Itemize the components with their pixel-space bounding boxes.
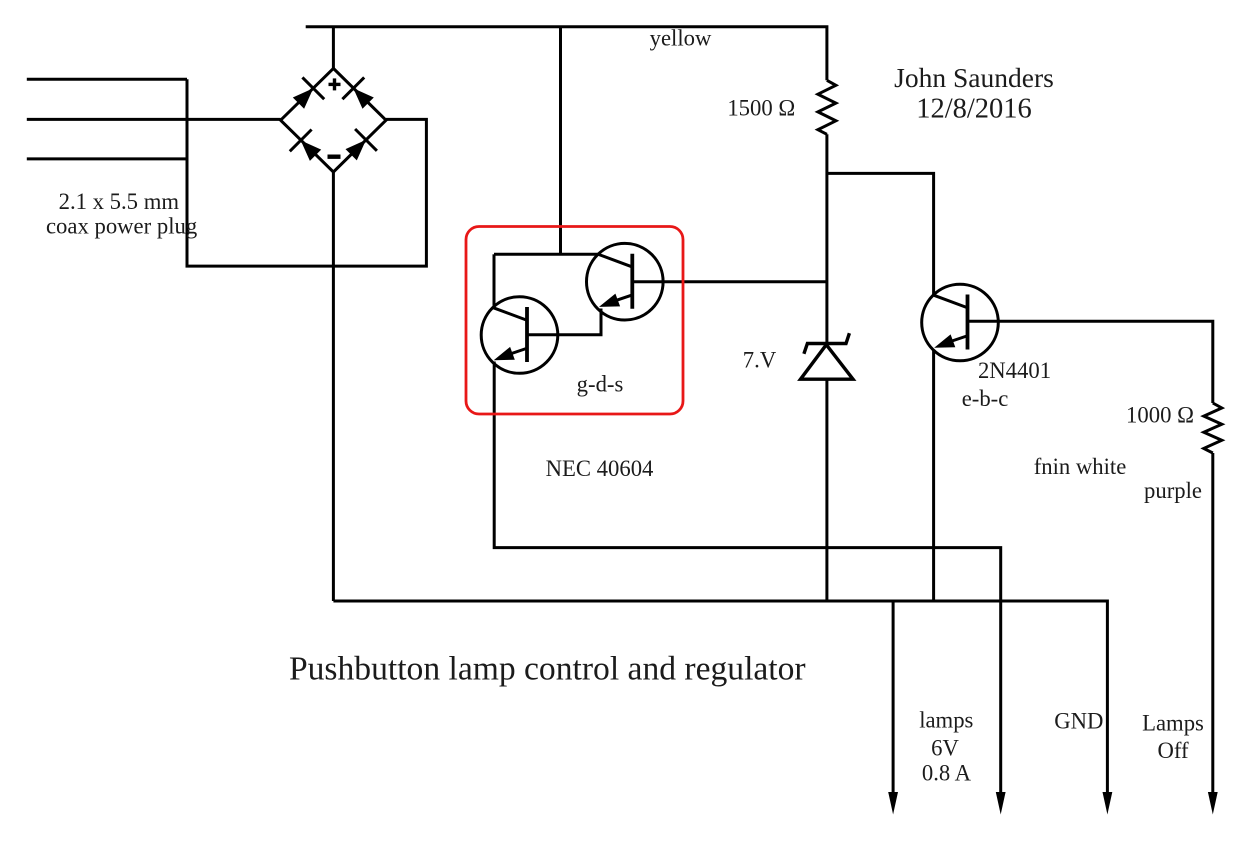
svg-text:e-b-c: e-b-c	[962, 386, 1009, 411]
svg-text:2.1 x 5.5 mm: 2.1 x 5.5 mm	[59, 189, 180, 214]
svg-text:g-d-s: g-d-s	[577, 371, 624, 396]
svg-text:2N4401: 2N4401	[978, 358, 1051, 383]
svg-text:yellow: yellow	[650, 25, 712, 50]
svg-text:purple: purple	[1144, 478, 1202, 503]
svg-text:1000 Ω: 1000 Ω	[1126, 403, 1194, 428]
svg-text:6V: 6V	[931, 735, 959, 760]
svg-text:Lamps: Lamps	[1142, 711, 1204, 736]
svg-text:Off: Off	[1157, 738, 1189, 763]
svg-text:1500 Ω: 1500 Ω	[727, 95, 795, 120]
svg-text:12/8/2016: 12/8/2016	[916, 94, 1032, 125]
svg-text:Pushbutton lamp control and re: Pushbutton lamp control and regulator	[289, 651, 806, 688]
svg-text:fnin white: fnin white	[1034, 454, 1127, 479]
svg-text:0.8 A: 0.8 A	[922, 761, 972, 786]
svg-text:coax power plug: coax power plug	[46, 213, 197, 238]
svg-text:NEC 40604: NEC 40604	[546, 456, 654, 481]
svg-text:John Saunders: John Saunders	[894, 62, 1054, 93]
svg-text:GND: GND	[1054, 709, 1103, 734]
svg-text:7.V: 7.V	[743, 347, 777, 372]
svg-text:lamps: lamps	[919, 708, 973, 733]
